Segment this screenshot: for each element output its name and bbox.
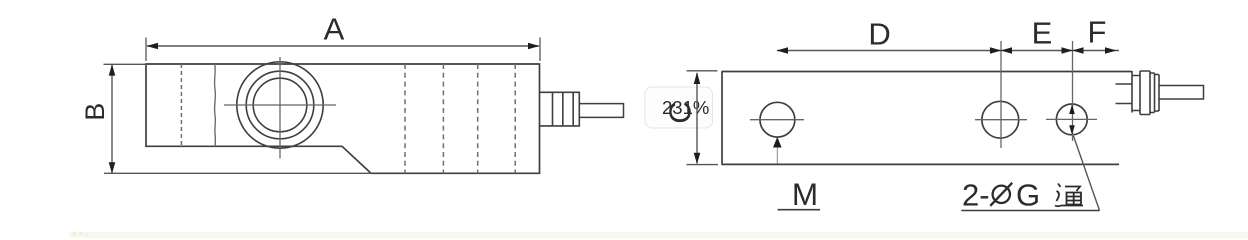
- hanzi tong (through): [1055, 184, 1083, 207]
- svg-text:G: G: [1016, 178, 1040, 213]
- dimension A line: [147, 45, 539, 47]
- dimension A extension lines: [146, 38, 540, 62]
- diameter symbol: [990, 183, 1012, 206]
- dimension A arrow right: [528, 43, 540, 50]
- hole center line horizontal: [224, 104, 336, 106]
- hidden dashed line right 2: [442, 64, 444, 173]
- bottom status bar: [69, 232, 1248, 238]
- dimension C line: [696, 73, 698, 164]
- middle hole center line horizontal: [975, 119, 1027, 121]
- dimension A arrow left: [147, 43, 159, 50]
- gland neck hidden lines right view: [1116, 84, 1132, 104]
- counterbore hole circles: [237, 62, 323, 148]
- left hole center line: [750, 119, 804, 121]
- right hole diameter arrow down: [1069, 125, 1075, 135]
- svg-text:A: A: [324, 12, 345, 47]
- middle hole right view: [982, 101, 1019, 138]
- dimension E line: [1001, 50, 1073, 52]
- dimension C arrow bottom: [694, 153, 701, 164]
- hole center line vertical: [279, 57, 281, 159]
- svg-text:B: B: [80, 103, 110, 121]
- right view bottom edge: [722, 163, 1120, 165]
- right view left edge: [721, 72, 723, 165]
- cable left view: [579, 104, 623, 118]
- svg-text:D: D: [868, 17, 890, 52]
- dimension B arrow top: [109, 64, 116, 75]
- middle hole center line vertical + D/E extension: [1000, 41, 1002, 148]
- svg-text:E: E: [1032, 16, 1053, 51]
- hidden dashed line right 3: [477, 64, 479, 173]
- left view body outline: [146, 64, 540, 173]
- zoom bubble 231%: [645, 87, 713, 128]
- dimension E arrow right: [1062, 47, 1073, 54]
- cable right view: [1159, 86, 1204, 100]
- cable gland right view: [1132, 71, 1159, 115]
- dimension D line: [777, 50, 1001, 52]
- dimension C arrow top: [694, 72, 701, 84]
- right hole right view: [1056, 104, 1087, 135]
- right hole diameter arrow up: [1069, 104, 1075, 114]
- 2-phiG label underline: [961, 210, 1099, 212]
- svg-text:C: C: [663, 101, 698, 123]
- dimension B extension line top: [104, 63, 148, 65]
- right hole center line horizontal: [1046, 118, 1097, 120]
- dimension C extension line top: [687, 70, 718, 72]
- hidden dashed line right 4: [514, 64, 516, 173]
- dimension F arrow right: [1105, 47, 1117, 54]
- dimension E arrow left: [1001, 47, 1012, 54]
- hidden wavy line left 2: [214, 64, 217, 146]
- cable gland left view: [540, 92, 580, 126]
- dimension D arrow right: [990, 47, 1001, 54]
- right hole center line vertical + E/F extension: [1072, 41, 1074, 141]
- label M underline: [778, 209, 821, 211]
- dimension B extension line bottom: [104, 172, 372, 174]
- 2-phiG label leader line: [1074, 136, 1100, 211]
- M leader stem: [776, 148, 778, 164]
- dimension D arrow left: [777, 47, 789, 54]
- dimension B line: [111, 65, 113, 173]
- dimension F arrow left: [1072, 47, 1083, 54]
- M leader arrow: [773, 137, 782, 148]
- left hole right view: [760, 102, 795, 137]
- right view top edge: [722, 71, 1132, 73]
- svg-text:M: M: [792, 176, 818, 212]
- dimension F line: [1073, 50, 1120, 52]
- dimension B arrow bottom: [109, 162, 116, 173]
- hidden dashed line right 1: [404, 64, 406, 173]
- dimension C extension line bottom: [687, 164, 719, 166]
- svg-text:2-: 2-: [962, 178, 990, 213]
- svg-text:F: F: [1088, 15, 1107, 50]
- hidden dashed line left 1: [180, 64, 182, 146]
- bottom bar left dots: [72, 232, 89, 237]
